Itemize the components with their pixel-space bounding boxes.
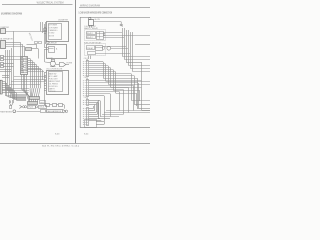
terminal strip T1 [21,57,28,75]
wire pump feed [45,61,50,64]
row A box 2 [39,106,47,109]
connector arrow 3 [63,110,66,113]
svg-text:SIG IN: SIG IN [49,35,55,37]
box B alternator [1,41,6,49]
harness bar 3 [47,110,63,113]
connector hook [121,22,122,27]
left page header rule [2,4,73,6]
svg-text:ALTERNATOR: ALTERNATOR [0,37,13,40]
svg-text:GND: GND [40,103,45,105]
svg-text:OPTION: OPTION [49,91,56,93]
junction bar J1 [30,97,40,100]
wire lower exit runs [106,110,150,112]
connector ring 1 [13,110,16,113]
wire staircase exits [135,44,150,46]
svg-text:CN-10: CN-10 [28,107,33,109]
wire alternator outputs [6,42,20,44]
row A arrow [19,105,21,108]
svg-text:FRAME HARNESS: FRAME HARNESS [0,110,13,113]
comp circle K1 [107,46,111,50]
wire V-merge left [9,100,11,103]
svg-text:IG POWER: IG POWER [49,27,59,29]
svg-text:CHARGE L: CHARGE L [49,29,58,32]
svg-text:[4] WIRING DIAGRAM: [4] WIRING DIAGRAM [1,11,23,15]
wire harness row B [17,111,41,113]
wire U2 bus [44,73,46,105]
connector DG1 [97,32,104,40]
page gutter line [75,0,77,143]
horn H1 [60,62,66,66]
svg-text:64 9-75×8 | 1990. 5 (1): 64 9-75×8 | 1990. 5 (1) [42,144,80,147]
svg-text:WIRING DIAGRAM: WIRING DIAGRAM [80,4,100,7]
diagram border right page [80,17,150,127]
node B circle [46,41,49,44]
connector pair row [46,104,50,107]
svg-text:9-43: 9-43 [55,134,60,136]
wire glow feed [93,21,121,23]
wire V1 staircase right [103,78,137,80]
wire relay pins [44,47,48,49]
wire starter feed [5,31,46,33]
wire diagonals converge [22,89,30,97]
wire ladder horizontals [0,69,11,71]
svg-text:CN-11: CN-11 [39,107,44,109]
connector merge symbol [10,106,12,109]
svg-text:9-44: 9-44 [84,134,89,136]
svg-text:CAB HARNESS: CAB HARNESS [47,110,62,113]
fuse boxes [35,42,38,44]
wire T1 bottom verticals [21,74,23,89]
glow plug G1 [89,17,91,19]
wire DG2 drop to V1 [88,56,90,60]
wire left edge cluster1 [1,56,4,58]
left edge connector fan [0,80,2,94]
label box row B [41,110,46,113]
svg-text:P.RELAY: P.RELAY [86,47,94,50]
svg-text:FUEL PUMP RELAY: FUEL PUMP RELAY [84,41,102,44]
svg-text:HORN: HORN [67,63,73,65]
right page header rule [79,7,150,9]
wire T1 fanout [28,58,30,60]
row A box 1 [28,106,36,109]
box A starter relay [1,29,6,34]
label box J3 [40,101,46,104]
hatched connector bar [26,48,32,51]
row A pair 2 [36,106,38,108]
svg-text:STARTER: STARTER [0,26,9,29]
wire fan above U1 [40,22,42,31]
bottom rule [0,143,150,145]
junction bar J2 [28,102,38,105]
wire right top bundle [103,32,122,34]
wire U1 left pins [44,27,46,29]
connector small above U1 [44,29,47,32]
connector strip V4 [87,108,89,126]
svg-text:E GND: E GND [49,33,55,35]
row A pair symbols [23,106,25,108]
wire bus verticals [13,31,15,96]
svg-text:RELAY 2: RELAY 2 [86,36,93,39]
svg-text:1.CAB MAJOR HARNESS WIRE CONNE: 1.CAB MAJOR HARNESS WIRE CONNECTION [79,12,113,15]
svg-text:GLOW: GLOW [94,19,100,21]
wire V2 elbows down [138,83,140,108]
wire left edge cluster2 [1,63,4,65]
svg-text:B POWER: B POWER [49,25,58,27]
svg-text:RELAY 1: RELAY 1 [86,32,93,35]
